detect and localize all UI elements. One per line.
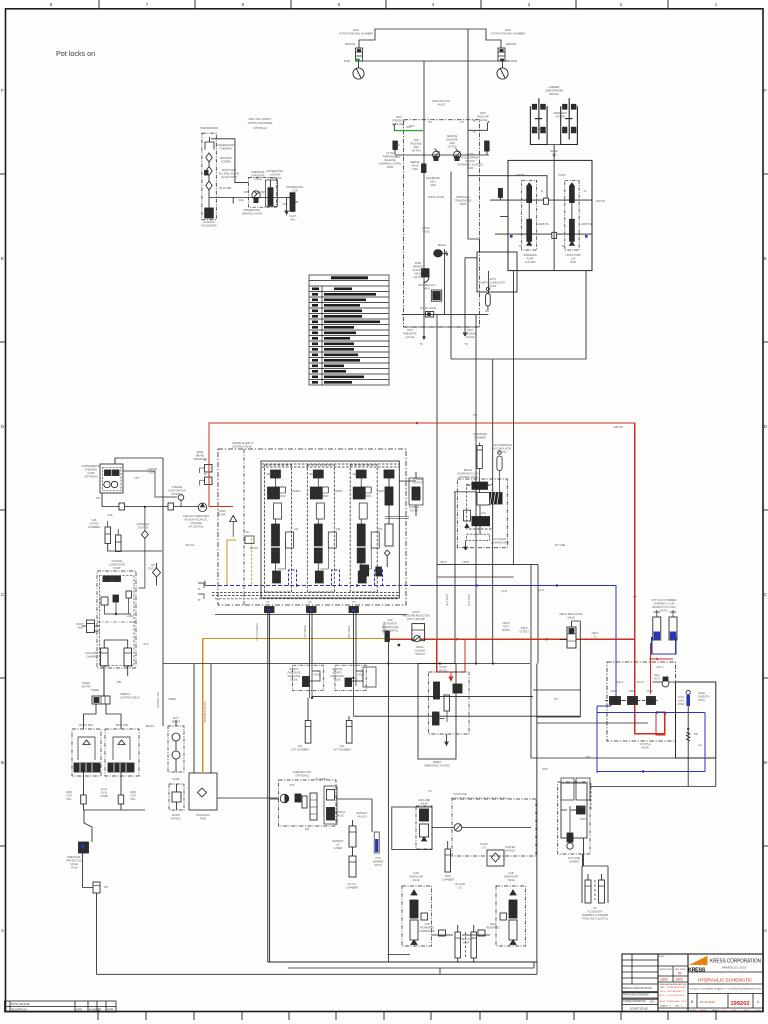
press reducing valve left	[567, 627, 576, 648]
wire transmission feed	[211, 139, 248, 183]
wire comb v1	[436, 315, 438, 664]
canister chamber	[477, 443, 482, 483]
svg-text:CHAMBER: CHAMBER	[346, 887, 358, 890]
orange elbow component	[245, 536, 254, 544]
anti-lock valve	[472, 517, 490, 526]
svg-text:CONTROL RELAY: CONTROL RELAY	[120, 697, 140, 700]
wire manifold bottom dashdot	[404, 326, 480, 328]
wire pump top out	[115, 458, 163, 464]
svg-text:(20 B): (20 B)	[71, 867, 78, 870]
orifice fitting rear	[118, 795, 124, 804]
svg-text:LOCK: LOCK	[292, 190, 299, 193]
svg-text:(2) B TEST: (2) B TEST	[446, 594, 449, 606]
wire green pilot line	[394, 130, 423, 132]
pressure protection valve	[79, 842, 89, 853]
svg-text:VALVE: VALVE	[422, 231, 430, 234]
wire comb v2	[454, 492, 456, 664]
svg-text:APPR: APPR	[107, 1009, 114, 1012]
wire pilot into box	[468, 176, 547, 200]
wire yellow pilot dashed	[251, 538, 253, 586]
svg-text:OR: OR	[245, 531, 249, 534]
carrier cab brake cluster	[530, 98, 577, 160]
fitting damp left	[439, 930, 446, 936]
svg-text:LIFT CHAMBER: LIFT CHAMBER	[333, 749, 351, 752]
svg-text:PUMP: PUMP	[114, 567, 121, 570]
accumulator manifold box	[477, 252, 517, 292]
auto pre charge box	[558, 782, 590, 854]
check valve bottom	[426, 312, 434, 318]
wire block edge	[572, 621, 581, 717]
spool column 2	[307, 465, 336, 592]
svg-text:CAB: CAB	[108, 514, 113, 517]
wire center spool line	[553, 160, 555, 270]
valve relief top	[434, 250, 448, 257]
svg-text:SAE: SAE	[283, 203, 288, 206]
valve tow release left	[433, 149, 440, 162]
svg-text:GAUGE: GAUGE	[479, 119, 488, 122]
svg-text:F: F	[764, 88, 767, 93]
wire vertical park line	[423, 61, 425, 339]
svg-text:4(B): 4(B)	[586, 756, 591, 759]
valve bank outlet blob 2	[307, 607, 317, 613]
svg-text:VALVE A: VALVE A	[357, 816, 367, 819]
svg-text:A: A	[1, 928, 4, 933]
svg-text:SOL B: SOL B	[637, 681, 644, 684]
svg-text:SOL C: SOL C	[656, 666, 663, 669]
shuttle solenoid 3	[642, 697, 658, 705]
wire dashed row	[451, 797, 508, 799]
svg-text:PSI: PSI	[96, 497, 100, 500]
neg actuator valve	[653, 677, 717, 687]
check fitting 2	[168, 503, 174, 510]
svg-text:CONTROL VALVE: CONTROL VALVE	[232, 446, 252, 449]
svg-text:10.8 GPM: 10.8 GPM	[525, 261, 536, 264]
svg-text:NONE: NONE	[700, 1010, 706, 1012]
svg-text:SCALE: SCALE	[690, 1009, 697, 1012]
svg-text:PARK: PARK	[511, 60, 518, 63]
pressure transducer	[498, 189, 502, 201]
accessory steering cylinders fork	[582, 866, 608, 903]
wire blue left hook	[205, 581, 212, 586]
wire comb v3	[475, 315, 477, 664]
svg-text:VALVE: VALVE	[254, 178, 262, 181]
svg-text:(2) BRAKE (2PT): (2) BRAKE (2PT)	[491, 542, 510, 545]
frame zone ticks sides	[0, 174, 768, 846]
pressure gauge block	[676, 682, 716, 758]
wire port stub	[500, 216, 508, 218]
svg-text:1600: 1600	[660, 978, 668, 982]
node sensor dot	[398, 644, 401, 647]
svg-text:VALVE: VALVE	[412, 879, 420, 882]
svg-text:APPROVED: APPROVED	[660, 968, 673, 971]
svg-text:RET: RET	[353, 473, 358, 476]
svg-text:PN: PN	[396, 144, 400, 147]
brake saver box	[457, 479, 507, 548]
wire hood line	[432, 827, 531, 829]
control valve inner box	[261, 461, 399, 598]
svg-text:CHAM: CHAM	[677, 703, 684, 706]
svg-text:RATIO: RATIO	[660, 610, 667, 613]
svg-text:HOIST: HOIST	[558, 174, 566, 177]
front hand brake box	[72, 729, 101, 776]
svg-text:16(B): 16(B)	[647, 690, 653, 693]
svg-text:SPECIAL SPECIFICATION: SPECIAL SPECIFICATION	[623, 987, 652, 990]
lift chamber cylinder right	[346, 716, 352, 743]
wire lower bus	[163, 663, 530, 665]
wire return drop zigzag	[84, 810, 92, 842]
central lubrication pump box	[97, 571, 136, 668]
svg-text:TILT CYLINDER: TILT CYLINDER	[256, 623, 259, 641]
wire bank inner dashdot	[243, 449, 245, 605]
brake saver cluster	[438, 443, 514, 578]
valve check mid	[544, 198, 549, 204]
svg-text:STEERING: STEERING	[383, 622, 386, 634]
valve bank outlet blob 1	[265, 607, 275, 613]
legend table texts	[312, 276, 380, 383]
follower chamber cylinder 1	[101, 648, 109, 666]
svg-text:CHAMBER: CHAMBER	[86, 656, 98, 659]
supplemental steering pump box	[100, 464, 123, 493]
spreader pump column	[522, 180, 537, 250]
svg-text:MAT: STANDARD DWG: MAT: STANDARD DWG	[660, 986, 687, 989]
svg-text:SPRDR: SPRDR	[516, 174, 525, 177]
svg-text:SHEET: SHEET	[712, 1010, 719, 1012]
wire blue return dashed	[212, 570, 616, 698]
wire damp dashes	[465, 932, 467, 958]
svg-text:VALVE: VALVE	[420, 803, 428, 806]
wire cylinder drops	[108, 544, 162, 552]
svg-text:OIL FILTER: OIL FILTER	[219, 187, 232, 190]
wire cluster feeds	[454, 489, 480, 550]
pedal slowing switch box	[412, 624, 425, 642]
wire comb v4	[492, 359, 494, 664]
node blue port left	[510, 235, 513, 238]
wire relief drop	[464, 258, 466, 315]
svg-text:VALVE: VALVE	[507, 879, 515, 882]
svg-text:+600 PSI: +600 PSI	[595, 200, 605, 203]
left cell texts	[623, 987, 652, 1011]
cab damp valve right	[496, 886, 526, 946]
svg-text:PTS: PTS	[144, 643, 149, 646]
svg-text:E: E	[764, 256, 767, 261]
svg-text:RET RAISE: RET RAISE	[348, 625, 351, 638]
wire drain arrow left	[423, 332, 425, 334]
svg-text:MT-3300 70 TON TANDEM DYNAMITI: MT-3300 70 TON TANDEM DYNAMITIC 72 TON S…	[690, 988, 761, 991]
implement section box	[268, 613, 537, 963]
svg-text:PUMP: PUMP	[219, 514, 226, 517]
svg-text:PN: PN	[460, 121, 464, 124]
svg-text:199202: 199202	[730, 1001, 749, 1007]
retract cylinder lower	[349, 852, 356, 877]
svg-text:SCREEN: SCREEN	[221, 161, 231, 164]
test port left mid	[198, 583, 204, 599]
node snubber dot	[687, 728, 689, 730]
wire reset drain	[445, 734, 448, 759]
svg-text:RAL: RAL	[131, 798, 136, 801]
svg-text:VALVE: VALVE	[641, 747, 649, 750]
wire return main vertical	[162, 458, 164, 726]
svg-text:STANDARD ABBREVIATIONS: STANDARD ABBREVIATIONS	[659, 983, 687, 986]
svg-text:BYPASS: BYPASS	[171, 818, 181, 821]
svg-text:1602: 1602	[675, 978, 683, 982]
test port upper	[200, 465, 213, 474]
svg-text:VALVE: VALVE	[567, 617, 575, 620]
node hook green end	[393, 124, 396, 131]
spool column 1	[265, 465, 294, 592]
wire tilt pair 1	[310, 613, 313, 664]
wire reducer branches	[312, 696, 580, 716]
svg-text:INITIAL RELEASE: INITIAL RELEASE	[11, 1003, 30, 1006]
reset emergency outer box	[418, 664, 456, 760]
svg-text:4160: 4160	[430, 184, 436, 187]
bladder accumulator	[431, 290, 441, 301]
svg-text:(OPTIONAL): (OPTIONAL)	[295, 775, 309, 778]
svg-text:+1825 PSI: +1825 PSI	[580, 223, 592, 226]
svg-text:CHARGE: CHARGE	[569, 861, 580, 864]
svg-text:CHAMBER: CHAMBER	[88, 526, 100, 529]
fitting damp right	[478, 930, 485, 936]
svg-text:500: 500	[694, 733, 699, 736]
svg-text:MOTOR: MOTOR	[82, 686, 91, 689]
valve service brake right	[454, 149, 461, 162]
middle column texts	[659, 956, 686, 971]
rear hand brake box	[105, 729, 139, 776]
svg-text:B: B	[764, 760, 767, 765]
wire brake return	[84, 804, 146, 810]
valve left traction wheel chamber	[355, 48, 362, 61]
wire tp elbow right	[468, 121, 489, 130]
svg-text:COOLER: COOLER	[148, 568, 158, 571]
steering orbital valve	[92, 668, 110, 704]
svg-text:STEERING FILTER: STEERING FILTER	[204, 701, 207, 722]
svg-text:PROPOSED DRAWING: PROPOSED DRAWING	[623, 994, 649, 997]
charge spool valve	[467, 482, 491, 489]
svg-text:TN: TN	[464, 343, 467, 346]
svg-text:CHM: CHM	[259, 191, 264, 194]
legend table	[309, 275, 389, 385]
pot lock cylinder right	[669, 610, 677, 640]
svg-text:LOWER: LOWER	[334, 847, 343, 850]
svg-text:BRAKES: BRAKES	[549, 93, 559, 96]
right side cylinder horizontal	[82, 620, 100, 633]
latch pump accumulator	[486, 287, 491, 310]
svg-text:STEER: STEER	[168, 698, 176, 701]
svg-text:HOSE: HOSE	[314, 674, 321, 677]
svg-text:SYSTEM: SYSTEM	[138, 527, 148, 530]
spool column 4 small	[376, 470, 394, 576]
solenoid valve latch	[422, 269, 430, 283]
safety relief box	[168, 720, 184, 772]
node drain tick	[232, 198, 234, 204]
svg-text:PLT LINE: PLT LINE	[555, 544, 566, 547]
inner dashed box	[467, 484, 493, 529]
wire accumulator drop	[487, 271, 489, 293]
svg-text:RELIEF: RELIEF	[146, 725, 155, 728]
cooler box small	[487, 850, 504, 866]
svg-text:PLT: PLT	[554, 698, 559, 701]
valve right park port	[485, 141, 490, 155]
suspension cylinder right	[471, 925, 477, 958]
svg-text:HYDRAULIC SCHEMATIC: HYDRAULIC SCHEMATIC	[698, 977, 753, 982]
svg-text:DESCRIPTION: DESCRIPTION	[11, 1010, 27, 1012]
svg-text:ORFS: ORFS	[440, 561, 447, 564]
svg-text:RET: RET	[310, 473, 315, 476]
svg-text:RAL: RAL	[482, 512, 487, 515]
svg-text:4(D): 4(D)	[294, 528, 299, 531]
arst chamber cylinder	[445, 841, 451, 872]
svg-text:RET: RET	[267, 473, 272, 476]
svg-text:CYL: CYL	[482, 847, 487, 850]
svg-text:DWG: DWG	[659, 956, 665, 958]
wire accumulator bus	[402, 314, 489, 316]
svg-text:EXCHANGER: EXCHANGER	[201, 225, 216, 228]
svg-text:REAR HND: REAR HND	[116, 724, 129, 727]
hydraulic tank box	[189, 773, 217, 810]
wire brake tank line	[451, 172, 586, 360]
svg-text:DPC: DPC	[406, 126, 411, 129]
test port lower	[200, 477, 213, 486]
svg-text:SERVICE: SERVICE	[506, 43, 517, 46]
wire brake supply vertical	[468, 29, 480, 252]
svg-text:SR DAL: SR DAL	[186, 544, 195, 547]
filter box pair bottom left	[561, 778, 591, 810]
svg-text:PN: PN	[428, 121, 432, 124]
suspension cylinder left	[455, 925, 461, 958]
wire long return run	[83, 888, 97, 975]
svg-text:TP: TP	[197, 599, 200, 602]
svg-text:PN3: PN3	[396, 156, 401, 159]
svg-text:MANIFOLD VALVE: MANIFOLD VALVE	[242, 213, 263, 216]
svg-text:AUTO: AUTO	[580, 818, 587, 821]
follower chamber cylinder 2	[124, 648, 132, 666]
svg-text:CONTROLS: CONTROLS	[268, 177, 282, 180]
svg-text:TK: TK	[518, 245, 521, 248]
svg-text:CHECK VALVE: CHECK VALVE	[428, 196, 445, 199]
svg-text:ORFS: ORFS	[463, 561, 470, 564]
wire tank feeds	[163, 664, 211, 774]
steering unit box	[279, 780, 337, 826]
svg-text:OPTL): OPTL)	[698, 699, 705, 702]
col3 bottom valve blob	[360, 565, 369, 576]
svg-text:A: A	[764, 928, 767, 933]
svg-text:DIFF LOCK CIRCUIT: DIFF LOCK CIRCUIT	[249, 118, 272, 121]
svg-text:PSI: PSI	[104, 886, 108, 889]
wire comb v5	[537, 565, 539, 664]
differential lock valve box	[265, 180, 277, 206]
svg-text:(20 PSI): (20 PSI)	[414, 276, 423, 279]
svg-text:BYPASS: BYPASS	[505, 850, 515, 853]
wire relief elbow	[465, 257, 477, 259]
svg-text:CLW: CLW	[744, 1010, 748, 1012]
svg-text:Pot locks on: Pot locks on	[56, 49, 95, 58]
wire steering ports	[270, 799, 372, 832]
charge pump circle	[198, 503, 206, 511]
svg-text:SR DAL: SR DAL	[250, 547, 259, 550]
svg-text:CHECK: CHECK	[502, 629, 511, 632]
wire diff lock drain	[285, 198, 288, 215]
svg-text:CHAMBER: CHAMBER	[474, 437, 486, 440]
wire top dashed band	[262, 464, 399, 467]
node bus junctions	[387, 662, 494, 664]
svg-text:DO NOT SCALE: DO NOT SCALE	[630, 1008, 648, 1011]
frame zone ticks top	[99, 0, 668, 9]
pilot element	[464, 510, 471, 527]
svg-text:OUTPUT: OUTPUT	[413, 482, 423, 485]
svg-text:(OPTIONAL): (OPTIONAL)	[253, 127, 267, 130]
svg-text:CHAMBER: CHAMBER	[442, 879, 454, 882]
spool column 3	[350, 465, 379, 592]
flow switch circle	[178, 495, 184, 501]
svg-text:4(B): 4(B)	[305, 828, 310, 831]
wire pump lower cross	[495, 233, 592, 235]
svg-text:GA: GA	[698, 744, 702, 747]
svg-text:(30 PSI): (30 PSI)	[412, 150, 421, 153]
svg-text:RETURN LINE: RETURN LINE	[157, 692, 160, 708]
wire shuttle feeds dark	[560, 639, 567, 641]
svg-text:GAUGE: GAUGE	[395, 123, 404, 126]
inline filter fitting	[93, 882, 100, 893]
svg-text:SAE: SAE	[239, 199, 244, 202]
svg-text:APM: STANDARD CON: APM: STANDARD CON	[660, 1000, 687, 1003]
svg-text:CYL: CYL	[458, 887, 463, 890]
svg-text:4(D)PSI: 4(D)PSI	[334, 490, 343, 493]
wire follower drops	[94, 631, 128, 696]
svg-text:PARK: PARK	[344, 60, 351, 63]
svg-text:FLOW: FLOW	[149, 472, 157, 475]
svg-text:1600A: 1600A	[460, 203, 467, 206]
wire bank bottom dashed rows	[212, 593, 399, 599]
wire red main supply	[209, 422, 667, 734]
hydraulic hammer gauge	[374, 832, 379, 853]
svg-text:STEER: STEER	[91, 689, 99, 692]
svg-text:GPM: GPM	[570, 261, 575, 264]
svg-text:RELIEF: RELIEF	[172, 721, 181, 724]
svg-text:LFT: LFT	[428, 790, 433, 793]
svg-text:PSI: PSI	[473, 414, 477, 417]
wire to tee	[82, 853, 84, 888]
svg-text:SUSPENSION: SUSPENSION	[419, 930, 435, 933]
svg-text:MFG: BROADWAY(T): MFG: BROADWAY(T)	[660, 990, 685, 993]
svg-text:APP: CUSTOM DWG: APP: CUSTOM DWG	[660, 994, 685, 997]
svg-text:HOOD LINE: HOOD LINE	[453, 793, 467, 796]
frame zone ticks bottom	[98, 1012, 716, 1021]
svg-text:(2) B: (2) B	[538, 589, 544, 592]
svg-text:16K0: 16K0	[412, 168, 418, 171]
svg-text:TOTAL (AS CYL)(OPTL): TOTAL (AS CYL)(OPTL)	[582, 918, 608, 921]
svg-text:VALVE: VALVE	[290, 679, 298, 682]
svg-text:4(D)PSI: 4(D)PSI	[292, 490, 301, 493]
labels brake saver	[457, 433, 512, 545]
svg-text:(2) TEST: (2) TEST	[519, 631, 529, 634]
valve bank outlet blob 3	[349, 607, 359, 613]
wire comb header	[437, 564, 538, 566]
svg-text:(OPTIONAL): (OPTIONAL)	[84, 476, 98, 479]
wire pedal drop junction	[387, 641, 389, 962]
svg-text:CHRG: CHRG	[578, 806, 585, 809]
brake unit left	[530, 98, 547, 144]
node blue port right	[585, 235, 588, 238]
svg-text:DRAWN: DRAWN	[660, 1005, 668, 1008]
svg-text:RAL: RAL	[291, 219, 296, 222]
svg-text:16000: 16000	[467, 167, 474, 170]
wire transmission main	[210, 197, 292, 199]
wire hood bus right	[533, 690, 648, 723]
svg-text:GAUGE: GAUGE	[466, 336, 475, 339]
title block left grid	[622, 954, 763, 1008]
svg-text:(2): (2)	[594, 636, 597, 639]
svg-text:EMERGENCY PLANTS: EMERGENCY PLANTS	[424, 765, 450, 768]
wire snubber drop	[687, 706, 689, 787]
